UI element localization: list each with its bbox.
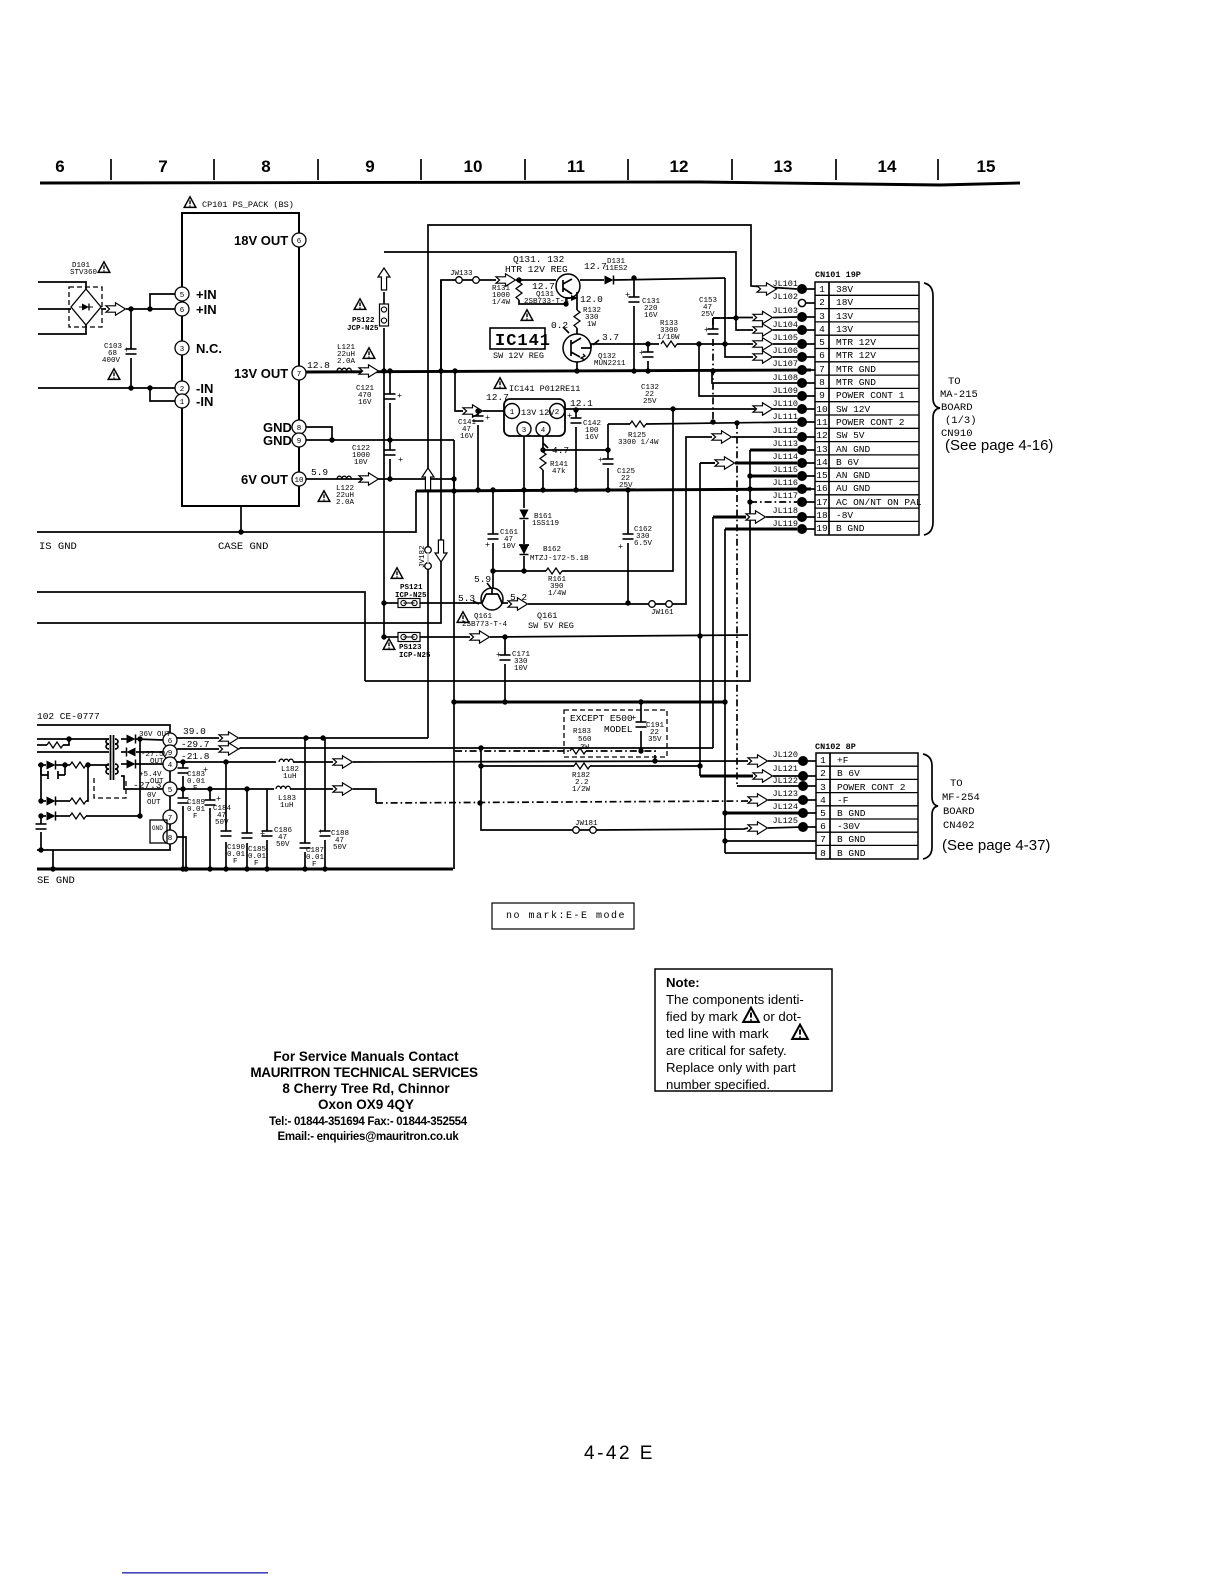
svg-text:MTR GND: MTR GND (836, 364, 876, 375)
regulator body (504, 399, 565, 436)
POWER CONT 2 dash vertical (736, 422, 738, 786)
svg-text:B GND: B GND (837, 834, 866, 845)
svg-text:B162: B162 (543, 546, 561, 554)
svg-text:-F: -F (837, 795, 849, 806)
capacitor C153 (713, 318, 736, 422)
svg-text:+: + (618, 542, 623, 552)
svg-text:15: 15 (977, 157, 996, 176)
diode B161 (523, 490, 525, 508)
svg-text:Oxon OX9 4QY: Oxon OX9 4QY (318, 1097, 414, 1112)
svg-text:ted line with mark: ted line with mark (666, 1026, 769, 1041)
svg-text:13V: 13V (836, 311, 853, 322)
svg-text:2: 2 (180, 386, 185, 394)
svg-text:102 CE-0777: 102 CE-0777 (37, 711, 100, 722)
38V rail (177, 737, 219, 739)
svg-text:B 6V: B 6V (836, 457, 859, 468)
transistor Q132 (563, 334, 591, 362)
svg-text:F: F (193, 813, 198, 821)
svg-text:7: 7 (819, 364, 825, 375)
svg-text:3: 3 (820, 782, 826, 793)
svg-text:MA-215: MA-215 (940, 389, 978, 401)
svg-text:POWER CONT 2: POWER CONT 2 (837, 782, 906, 793)
bridge D101 dashed box (69, 287, 102, 327)
fuse PS121 (391, 568, 403, 579)
pin 8 (163, 830, 177, 844)
wire AC in bottom (38, 325, 86, 334)
wire 12V to JL105/106 verticals (725, 278, 753, 357)
svg-text:1: 1 (820, 755, 826, 766)
inductor L122 (337, 476, 351, 479)
svg-text:11ES2: 11ES2 (605, 265, 628, 273)
pin 6 +IN (175, 302, 189, 316)
svg-text:2: 2 (819, 297, 825, 308)
warning + label IC141 P012RE11 (494, 378, 506, 389)
svg-text:-8V: -8V (836, 510, 853, 521)
svg-text:JL125: JL125 (772, 816, 798, 826)
svg-text:Replace only with part: Replace only with part (666, 1060, 796, 1075)
diode row 1 (38, 764, 46, 766)
resistor R131 (518, 280, 520, 282)
svg-text:1/10W: 1/10W (657, 334, 680, 342)
up arrow on 38V line (422, 468, 434, 490)
svg-text:3300 1/4W: 3300 1/4W (618, 439, 659, 447)
-29.7/-8V horizontal (240, 747, 713, 749)
pin 5 (163, 782, 177, 796)
svg-text:-29.7: -29.7 (181, 739, 210, 750)
wire CP101 bottom to case gnd (240, 506, 242, 532)
svg-text:12.7: 12.7 (584, 261, 607, 272)
svg-text:10V: 10V (514, 665, 528, 673)
svg-text:1/4W: 1/4W (492, 299, 511, 307)
dashed box (564, 710, 667, 757)
svg-text:560: 560 (578, 736, 592, 744)
capacitor C142 (575, 410, 577, 490)
ground bus 2 (452, 701, 726, 704)
svg-text:MTR 12V: MTR 12V (836, 337, 876, 348)
svg-text:IS GND: IS GND (39, 541, 77, 553)
svg-text:JL109: JL109 (772, 386, 798, 396)
shield dashed box (94, 778, 126, 798)
svg-text:13: 13 (774, 157, 793, 176)
diode row 2 (41, 800, 46, 802)
resistor R182 line (481, 765, 574, 767)
JL101 arrow (757, 283, 777, 295)
svg-text:IC141 P012RE11: IC141 P012RE11 (509, 384, 580, 394)
wire 18V/13V run to pin4 (384, 252, 753, 330)
0V rail / -F dash (177, 788, 274, 790)
svg-text:B GND: B GND (837, 808, 866, 819)
svg-text:+: + (318, 827, 323, 837)
svg-text:TO: TO (948, 376, 961, 388)
capacitor C187 (304, 738, 306, 869)
svg-text:JL102: JL102 (772, 292, 798, 302)
svg-text:18: 18 (816, 510, 828, 521)
svg-text:JCP-N25: JCP-N25 (347, 325, 379, 333)
svg-text:JV182: JV182 (419, 545, 427, 568)
capacitor C188 (324, 738, 326, 869)
svg-text:JL101: JL101 (772, 279, 798, 289)
svg-text:3: 3 (180, 346, 185, 354)
svg-text:6: 6 (55, 157, 64, 176)
svg-text:BOARD: BOARD (943, 806, 975, 818)
svg-text:-30V: -30V (837, 821, 860, 832)
pin 2 -IN (175, 381, 189, 395)
svg-text:4: 4 (541, 427, 546, 435)
svg-text:CP101 PS_PACK (BS): CP101 PS_PACK (BS) (202, 200, 294, 210)
svg-text:12.1: 12.1 (570, 398, 593, 409)
13V OUT heavy rail (306, 370, 811, 372)
svg-text:MF-254: MF-254 (942, 792, 980, 804)
svg-text:6.5V: 6.5V (634, 540, 653, 548)
svg-text:3.7: 3.7 (602, 332, 619, 343)
warning triangle CP101 (184, 197, 196, 208)
svg-text:or dot-: or dot- (763, 1009, 801, 1024)
GND box pins7/8 (150, 820, 167, 843)
wire 38V top run (428, 225, 797, 738)
svg-text:2SB773-T-4: 2SB773-T-4 (462, 621, 508, 629)
svg-text:PS122: PS122 (352, 317, 375, 325)
pin8 to SE GND (177, 837, 186, 869)
TO MA-215 BOARD text (940, 376, 978, 440)
svg-text:+: + (631, 713, 636, 723)
arrow into reg (463, 405, 483, 417)
capacitor C190 (225, 762, 227, 869)
transformer T102 core (110, 735, 112, 780)
svg-text:6V OUT: 6V OUT (241, 472, 288, 487)
jumper JV182 (425, 547, 432, 554)
pin3/4 down wires (524, 436, 543, 490)
svg-text:JL124: JL124 (772, 802, 798, 812)
svg-text:-IN: -IN (196, 394, 213, 409)
SE GND rail (37, 868, 453, 871)
bridge diode symbol (82, 304, 89, 311)
svg-text:+: + (397, 391, 402, 401)
wire AC in mid (38, 308, 71, 310)
svg-text:number specified.: number specified. (666, 1077, 770, 1092)
svg-text:16: 16 (816, 483, 828, 494)
svg-text:R183: R183 (573, 728, 592, 736)
svg-text:MODEL: MODEL (604, 724, 633, 735)
svg-text:7: 7 (168, 815, 173, 823)
windings right lower (115, 764, 118, 774)
pin 1 -IN (175, 394, 189, 408)
svg-text:GND: GND (263, 433, 292, 448)
svg-text:CN402: CN402 (943, 820, 975, 832)
svg-text:12: 12 (816, 430, 828, 441)
x454 long vertical (453, 440, 455, 869)
wire bridge out to +IN pins (101, 308, 175, 310)
warning triangle C103 (108, 369, 120, 380)
svg-text:12.8: 12.8 (307, 360, 330, 371)
AC ON/NT dash stub JL117 (750, 501, 797, 503)
svg-text:+: + (598, 455, 603, 465)
svg-text:14: 14 (816, 457, 828, 468)
svg-text:2SB733-T-4: 2SB733-T-4 (524, 298, 570, 306)
svg-text:2: 2 (820, 768, 826, 779)
windings left lower (106, 764, 109, 774)
svg-text:1uH: 1uH (280, 802, 294, 810)
vertical x140 (139, 739, 141, 816)
pin 7 (163, 810, 177, 824)
svg-text:8: 8 (297, 425, 302, 433)
svg-text:1: 1 (180, 399, 185, 407)
capacitor C162 (627, 490, 629, 603)
svg-text:16V: 16V (358, 399, 372, 407)
pin 3 N.C. (175, 341, 189, 355)
svg-text:16V: 16V (460, 433, 474, 441)
svg-text:JL107: JL107 (772, 359, 798, 369)
svg-text:JL106: JL106 (772, 346, 798, 356)
svg-text:JL117: JL117 (772, 491, 798, 501)
svg-text:+: + (704, 325, 709, 335)
svg-text:12.0: 12.0 (580, 294, 603, 305)
emitter 5V line to JW161 (502, 602, 508, 604)
svg-text:-21.8: -21.8 (181, 751, 210, 762)
svg-text:8: 8 (820, 848, 826, 859)
svg-text:5: 5 (820, 808, 826, 819)
warning triangle Q131 (521, 310, 533, 321)
svg-text:7: 7 (297, 371, 302, 379)
svg-text:50V: 50V (333, 844, 347, 852)
svg-text:7: 7 (820, 834, 826, 845)
svg-text:GND: GND (152, 825, 163, 832)
capacitor C183 (182, 762, 184, 789)
svg-text:POWER CONT 1: POWER CONT 1 (836, 390, 905, 401)
Q132 collector line with R133 to MTR12V (577, 344, 659, 371)
svg-text:5: 5 (180, 292, 185, 300)
wire AC in top (38, 282, 86, 289)
svg-text:35V: 35V (648, 736, 662, 744)
capacitor C141 (477, 411, 479, 490)
svg-text:3: 3 (819, 311, 825, 322)
warning triangle L121 (363, 348, 375, 359)
JL104 arrow (753, 324, 773, 336)
-21.8 / +F rail (177, 761, 276, 763)
svg-text:SW 12V REG: SW 12V REG (493, 351, 544, 361)
arrow bridge out (106, 303, 126, 315)
svg-text:1/2W: 1/2W (572, 786, 591, 794)
capacitor C191 (640, 702, 642, 751)
svg-text:TO: TO (950, 778, 963, 790)
SW12V rail out (565, 408, 797, 410)
svg-text:6: 6 (819, 350, 825, 361)
svg-text:5: 5 (819, 337, 825, 348)
wire branch to pin5 (150, 294, 175, 309)
capacitor C186 (266, 789, 268, 869)
svg-text:SW 12V: SW 12V (836, 404, 871, 415)
svg-text:AN GND: AN GND (836, 444, 871, 455)
svg-text:IC141: IC141 (495, 332, 551, 351)
svg-text:STV360: STV360 (70, 269, 98, 277)
svg-text:4: 4 (820, 795, 826, 806)
svg-text:8: 8 (168, 835, 173, 843)
svg-text:9: 9 (297, 438, 302, 446)
heavy AU GND bus (416, 489, 811, 491)
AN GND vertical JL113/115 (750, 449, 797, 452)
svg-text:10: 10 (816, 404, 828, 415)
wire to other page y592 (37, 592, 365, 681)
svg-text:10: 10 (294, 477, 304, 485)
svg-text:1uH: 1uH (283, 773, 297, 781)
SW12V arrow JL110 (753, 403, 773, 415)
svg-text:14: 14 (878, 157, 897, 176)
svg-text:are critical for safety.: are critical for safety. (666, 1043, 787, 1058)
svg-text:MUN2211: MUN2211 (594, 360, 626, 368)
svg-text:PS121: PS121 (400, 584, 423, 592)
svg-text:+: + (485, 413, 490, 423)
pin 9 (163, 745, 177, 759)
svg-text:JL122: JL122 (772, 776, 798, 786)
block top line (37, 725, 170, 733)
capacitor C103 (130, 309, 132, 388)
pin 4 (163, 757, 177, 771)
svg-text:JL103: JL103 (772, 306, 798, 316)
svg-text:39.0: 39.0 (183, 726, 206, 737)
down arrow beside (435, 540, 447, 562)
svg-text:7: 7 (158, 157, 167, 176)
svg-text:+IN: +IN (196, 302, 217, 317)
svg-text:6: 6 (180, 307, 185, 315)
svg-text:(See page 4-37): (See page 4-37) (942, 837, 1050, 854)
svg-text:CASE GND: CASE GND (218, 541, 268, 553)
svg-text:PS123: PS123 (399, 644, 422, 652)
svg-text:Q161: Q161 (537, 611, 557, 621)
node 4.7 to C125 (543, 449, 608, 451)
svg-text:+: + (260, 829, 265, 839)
capacitor C125 (607, 450, 609, 459)
svg-text:JL110: JL110 (772, 399, 798, 409)
input corner from 13V rail (455, 371, 463, 411)
svg-text:50V: 50V (215, 819, 229, 827)
JL106 arrow (753, 351, 773, 363)
svg-text:JL113: JL113 (772, 439, 798, 449)
CP101 block outline (182, 213, 299, 506)
JL labels (772, 279, 798, 529)
resistor R125 POWER CONT 2 line (608, 422, 797, 450)
JL103 arrow + wire (736, 317, 753, 320)
svg-text:19: 19 (816, 523, 828, 534)
svg-text:50V: 50V (276, 841, 290, 849)
svg-text:12: 12 (670, 157, 689, 176)
arrow JW133 (496, 274, 516, 286)
transistor Q161 (492, 571, 494, 588)
TO MF-254 BOARD text (942, 778, 980, 832)
svg-text:JW133: JW133 (450, 270, 473, 278)
transistor Q131 (556, 274, 580, 298)
svg-text:3: 3 (522, 427, 527, 435)
svg-text:18V: 18V (836, 297, 853, 308)
pin stubs to table (802, 289, 815, 529)
svg-text:BOARD: BOARD (941, 402, 973, 414)
svg-text:OUT: OUT (147, 799, 161, 807)
label 12.0 with arrow (566, 297, 572, 299)
svg-text:15: 15 (816, 470, 828, 481)
svg-text:4: 4 (819, 324, 825, 335)
JL labels (772, 750, 798, 826)
pin connection dots (797, 284, 807, 294)
svg-text:MTR GND: MTR GND (836, 377, 876, 388)
warning triangle D101 (98, 262, 110, 273)
windings left upper (106, 739, 109, 749)
resistor R161 base rail (493, 570, 546, 572)
capacitor C171 (504, 637, 506, 702)
svg-text:JL116: JL116 (772, 478, 798, 488)
svg-text:5.9: 5.9 (474, 574, 491, 585)
svg-text:2: 2 (555, 409, 560, 417)
svg-text:4: 4 (168, 762, 173, 770)
svg-text:SW 5V: SW 5V (836, 430, 865, 441)
svg-text:B 6V: B 6V (837, 768, 860, 779)
secondary diodes (121, 738, 127, 740)
svg-text:The components identi-: The components identi- (666, 992, 804, 1007)
capacitor C122 (389, 440, 391, 479)
svg-text:13V: 13V (521, 408, 537, 418)
svg-text:CN101 19P: CN101 19P (815, 270, 861, 280)
svg-text:2.0A: 2.0A (336, 499, 355, 507)
IC141 box (490, 328, 545, 349)
B GND vertical JL119 (725, 528, 797, 531)
capacitor C121 (389, 371, 391, 440)
svg-text:(1/3): (1/3) (945, 415, 977, 427)
svg-text:9: 9 (365, 157, 374, 176)
svg-text:JL123: JL123 (772, 789, 798, 799)
MTR GND bus into pin7, JL108 branch (712, 370, 811, 383)
svg-text:CN102 8P: CN102 8P (815, 742, 856, 752)
brace (924, 283, 940, 535)
svg-text:MTR 12V: MTR 12V (836, 350, 876, 361)
svg-text:5: 5 (168, 787, 173, 795)
svg-text:18V OUT: 18V OUT (234, 233, 288, 248)
svg-text:HTR 12V REG: HTR 12V REG (505, 264, 568, 275)
svg-text:12V: 12V (539, 408, 555, 418)
svg-text:5.9: 5.9 (311, 467, 328, 478)
svg-text:+: + (639, 348, 644, 358)
pin numbers and names (816, 284, 828, 534)
svg-text:25V: 25V (643, 398, 657, 406)
B6V vertical JL114 (700, 462, 715, 464)
svg-text:8 Cherry Tree Rd, Chinnor: 8 Cherry Tree Rd, Chinnor (282, 1081, 450, 1096)
svg-text:(See page 4-16): (See page 4-16) (945, 437, 1053, 454)
svg-text:AC ON/NT ON PAL: AC ON/NT ON PAL (836, 497, 922, 508)
svg-text:38V: 38V (836, 284, 853, 295)
svg-text:9: 9 (819, 390, 825, 401)
svg-text:+: + (485, 540, 490, 550)
GND pins wire (306, 427, 454, 440)
JL105 arrow (753, 338, 773, 350)
arrow 13V (359, 365, 379, 377)
svg-text:1W: 1W (587, 321, 597, 329)
svg-text:1: 1 (819, 284, 825, 295)
svg-text:EXCEPT E500: EXCEPT E500 (570, 713, 633, 724)
diode row 3 (41, 815, 46, 817)
svg-text:MAURITRON TECHNICAL SERVICES: MAURITRON TECHNICAL SERVICES (250, 1065, 478, 1080)
svg-text:+: + (216, 794, 221, 804)
capacitor C184 (209, 789, 211, 869)
wire block bottom to SE GND (50, 866, 55, 871)
svg-text:10V: 10V (502, 543, 516, 551)
svg-text:17: 17 (816, 497, 827, 508)
svg-text:B GND: B GND (837, 848, 866, 859)
svg-text:JL118: JL118 (772, 506, 798, 516)
svg-text:JW161: JW161 (651, 609, 674, 617)
svg-text:no mark:E-E mode: no mark:E-E mode (506, 910, 626, 922)
windings right upper (115, 739, 118, 749)
fuse PS122 (383, 292, 385, 371)
wire branch to pin1 (150, 388, 175, 401)
svg-text:1: 1 (510, 409, 515, 417)
0V wire (121, 776, 163, 789)
svg-text:ICP-N25: ICP-N25 (399, 652, 431, 660)
